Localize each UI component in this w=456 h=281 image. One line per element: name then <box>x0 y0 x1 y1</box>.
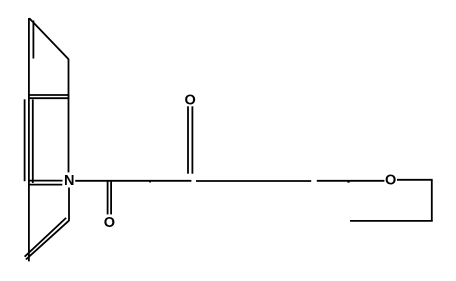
wire: C=N double bond line 2 <box>28 184 62 186</box>
node: chain junction nub right <box>347 181 349 182</box>
wire: chain bond N to C <box>75 180 191 182</box>
wire: left parallel vertical c <box>32 100 34 184</box>
svg-text:O: O <box>185 92 196 108</box>
wire: bottom horizontal bond of tail <box>350 220 433 222</box>
wire: right vertical bond of tail <box>431 180 433 222</box>
wire: upper inner double-bond line <box>32 21 34 59</box>
node: chain junction nub left <box>149 181 151 182</box>
wire: horizontal double bond lower line <box>28 97 69 99</box>
wire: lower carbonyl C=O line 1 <box>107 181 109 214</box>
wire: chain bond middle <box>196 180 311 182</box>
svg-text:N: N <box>64 173 74 189</box>
wire: top diagonal bond <box>29 18 68 59</box>
wire: upper carbonyl C=O line 2 <box>191 106 193 173</box>
wire: lower carbonyl C=O line 2 <box>110 181 112 214</box>
wire: left long vertical ring edge <box>28 18 30 261</box>
wire: chain bond right <box>317 180 385 182</box>
svg-text:O: O <box>104 215 115 231</box>
wire: lower diagonal double bond inner <box>25 218 67 257</box>
wire: horizontal double bond upper line <box>28 94 69 96</box>
wire: vertical bond below N <box>68 188 70 221</box>
wire: left parallel vertical a <box>24 99 26 181</box>
wire: lower diagonal double bond outer <box>26 221 69 260</box>
svg-text:O: O <box>385 173 396 189</box>
wire: C=N double bond line 1 <box>28 180 63 182</box>
wire: right vertical bond upper ring <box>68 59 70 172</box>
wire: bond O to CH2 <box>397 179 433 181</box>
wire: upper carbonyl C=O line 1 <box>187 106 189 173</box>
